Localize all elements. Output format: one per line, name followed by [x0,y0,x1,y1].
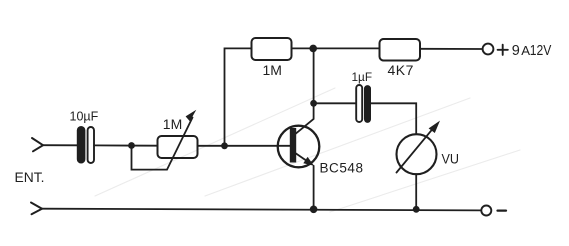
terminal positive open circle [483,44,494,55]
wire C1 to node A [94,144,158,146]
resistor R1 body [252,38,292,60]
svg-text:10µF: 10µF [70,110,99,124]
input arrow top (ENT.) [32,138,43,151]
svg-text:1M: 1M [163,116,182,132]
capacitor C1 10uF negative plate [77,127,85,164]
transistor Q1 emitter with arrow [296,154,314,166]
node F junction dot meter bottom [413,206,420,213]
wire R1 to R2 top rail [292,47,380,49]
label ENT. [15,169,45,185]
node C junction dot top rail [309,45,317,53]
svg-text:BC548: BC548 [320,161,364,176]
svg-text:VU: VU [442,152,460,167]
svg-text:ENT.: ENT. [15,169,45,185]
svg-text:1µF: 1µF [352,70,373,84]
meter M1 arrow [397,121,441,173]
label 1uF [352,70,373,84]
wire meter to bottom rail [415,174,417,209]
node E junction dot emitter bottom [310,206,318,214]
transistor Q1 BC548 body [278,126,320,168]
capacitor C2 1uF negative plate [364,86,370,123]
label 10uF [70,110,99,124]
resistor R2 body [380,39,421,61]
node D junction dot collector branch [310,100,317,107]
label +9 A 12V [498,43,552,59]
potentiometer P1 wiper arrow [167,110,196,170]
capacitor C1 10uF positive plate [88,127,94,163]
meter M1 body [397,134,437,174]
label minus dash [498,210,507,212]
wire collector vertical [296,48,314,133]
wire node D to C2 [314,102,356,104]
label 1M resistor R1 [263,62,282,78]
wire node B up to R1 [225,48,252,145]
terminal negative open circle [481,206,491,216]
wire emitter to bottom rail [313,166,315,210]
node B junction dot [221,142,228,149]
label 4K7 [388,62,414,78]
wire bypass node A to wiper [132,146,168,170]
input arrow bottom [31,203,42,215]
svg-text:12V: 12V [530,43,552,59]
svg-text:1M: 1M [263,62,282,78]
label BC548 [320,161,364,176]
node A junction dot [128,142,135,149]
wire input to C1 [43,144,77,146]
capacitor C2 1uF positive plate [356,85,362,122]
wire R2 to positive terminal [420,48,483,50]
label VU [442,152,460,167]
wire P1 to base node [198,145,291,147]
potentiometer P1 body [158,136,198,158]
wire C2 to meter [371,103,416,134]
svg-text:9: 9 [512,43,520,59]
svg-text:4K7: 4K7 [388,62,414,78]
transistor Q1 base bar [290,128,296,163]
label 1M potentiometer [163,116,182,132]
wire bottom rail [42,209,481,211]
